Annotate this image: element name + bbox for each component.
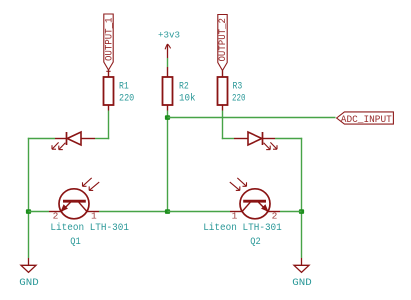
Q2 pin 2 [268,211,280,213]
LED D2 (right) [234,132,275,145]
transistor Q1 (phototransistor) [59,189,89,219]
wire LED1 cathode to left column [28,138,55,140]
resistor R1 [104,77,114,111]
resistor R2 [163,77,173,111]
svg-text:GND: GND [19,277,38,289]
wire stub label to R1 [108,70,110,77]
wire stub label to R3 [222,71,224,78]
wire R3 bottom down to LED2 row [222,111,224,140]
svg-text:R1: R1 [119,82,129,93]
svg-text:R3: R3 [233,82,243,93]
global label ADC_INPUT [337,112,394,124]
wire LED2 cathode to right column [275,138,302,140]
wire Q2 pin2 to right column [280,211,302,213]
svg-text:OUTPUT_1: OUTPUT_1 [104,18,115,62]
wire junction to Q1 pin 2 [29,211,50,213]
wire LED1 anode to R1 column [95,138,109,140]
wire R3 column to LED2 anode [222,138,234,140]
wire R1 bottom down to LED row [108,111,110,140]
global label OUTPUT_1 [104,14,113,70]
Q1 pin 1 [87,211,99,213]
junction center column collectors [165,209,170,214]
svg-text:R2: R2 [179,82,189,93]
svg-text:OUTPUT_2: OUTPUT_2 [218,18,229,62]
svg-text:GND: GND [292,277,311,289]
resistor R3 [218,77,228,111]
wire left column vertical [28,138,30,258]
junction left column [26,209,31,214]
Q1 pin 2 [49,211,61,213]
wire junction to ADC_INPUT [168,117,336,119]
Q1 light arrows [83,178,100,191]
wire power to R2 [167,58,169,67]
wire R2 bottom down to collectors row [167,111,169,212]
junction at R2 bottom / ADC tap [165,115,170,120]
wire center junction to Q2 pin1 [168,211,231,213]
svg-text:Liteon LTH-301: Liteon LTH-301 [50,222,129,234]
svg-text:ADC_INPUT: ADC_INPUT [341,115,392,126]
svg-text:220: 220 [119,93,134,104]
svg-text:+3v3: +3v3 [158,30,180,41]
wire right column vertical [301,138,303,258]
svg-text:Liteon LTH-301: Liteon LTH-301 [203,222,282,234]
ground (right) [301,258,303,265]
global label OUTPUT_2 [218,15,227,71]
svg-text:10k: 10k [179,92,196,104]
svg-text:Q2: Q2 [250,237,261,248]
power +3v3 [165,44,171,58]
transistor Q2 (phototransistor) [240,189,270,219]
junction right column [299,209,304,214]
svg-text:1: 1 [232,211,238,222]
svg-text:2: 2 [53,211,59,222]
wire Q1 pin1 to center column [99,211,168,213]
svg-text:1: 1 [91,211,97,222]
Q2 pin 1 [230,211,242,213]
svg-text:2: 2 [272,211,278,222]
svg-text:Q1: Q1 [70,237,81,248]
LED D2 light arrows [264,142,277,149]
LED D1 light arrows [52,142,65,149]
svg-text:220: 220 [232,93,246,104]
LED D1 (left) [55,132,95,145]
ground (left) [28,258,30,265]
Q2 light arrows [230,178,247,191]
